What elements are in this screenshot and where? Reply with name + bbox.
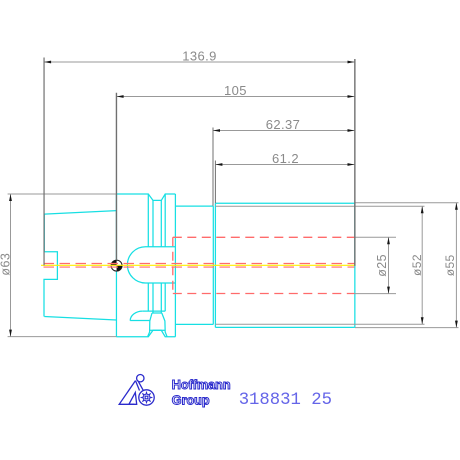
svg-text:318831 25: 318831 25 (239, 391, 332, 410)
svg-text:ø52: ø52 (410, 254, 424, 276)
svg-text:Hoffmann: Hoffmann (172, 378, 231, 392)
svg-text:61.2: 61.2 (272, 151, 299, 166)
svg-text:ø55: ø55 (443, 254, 457, 276)
svg-text:ø25: ø25 (375, 254, 389, 277)
svg-text:105: 105 (224, 83, 247, 98)
svg-text:ø63: ø63 (0, 253, 13, 276)
svg-text:Group: Group (172, 394, 210, 408)
svg-text:136.9: 136.9 (182, 48, 217, 63)
svg-text:62.37: 62.37 (266, 117, 301, 132)
